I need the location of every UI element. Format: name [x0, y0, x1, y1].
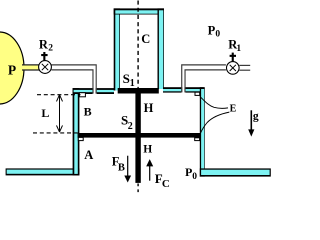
force arrow F_C (up) [149, 166, 151, 181]
R1 channel crossing shoulder [182, 87, 184, 92]
pressure gauge R2 (circle with X) [39, 61, 52, 74]
tube stub right of gauge R1 [239, 64, 250, 66]
support square under S2 right end [195, 138, 200, 141]
vessel left shoulder (cyan band with tube gap) [73, 88, 93, 94]
vessel left floor (cyan band) [6, 168, 80, 175]
gravity arrow g [250, 110, 252, 130]
svg-text:0: 0 [215, 30, 220, 40]
vessel left wall (cyan band) [73, 88, 80, 175]
svg-text:1: 1 [130, 78, 135, 89]
white bore of R2 down-channel [94, 66, 96, 94]
svg-text:P: P [8, 63, 16, 78]
pump bulb P [0, 32, 24, 104]
svg-text:1: 1 [236, 44, 241, 54]
vessel right shoulder (cyan band with tube gap) [163, 87, 181, 92]
support square on right shoulder [195, 92, 200, 95]
svg-text:A: A [84, 148, 93, 162]
svg-text:L: L [41, 106, 49, 120]
leader from E to lower support [200, 112, 229, 134]
svg-text:g: g [253, 111, 259, 123]
svg-text:H: H [143, 143, 152, 155]
chimney right wall (cyan band) [158, 8, 165, 89]
svg-text:C: C [162, 178, 170, 190]
dagger above gauge R1 [232, 53, 234, 62]
svg-text:E: E [230, 104, 237, 115]
dashed level line (bottom of L) [33, 132, 78, 134]
svg-text:B: B [118, 162, 125, 173]
svg-text:P: P [208, 24, 216, 38]
piston plate S1 (black bar in chimney) [118, 88, 159, 94]
support square on left shoulder [79, 93, 85, 97]
chimney left wall (cyan band) [114, 8, 120, 90]
pressure gauge R1 (circle with X) [227, 62, 240, 75]
chimney top (cyan band) [114, 8, 164, 14]
force arrow F_B (down) [127, 156, 129, 177]
vessel right floor (cyan band) [200, 168, 271, 176]
tube bulb to gauge R2 (yellow) [22, 65, 39, 69]
vessel right wall (cyan band) [200, 87, 205, 176]
leader from E to upper support [200, 96, 228, 108]
R2 channel crossing shoulder [94, 88, 96, 93]
white bore of R1 down-channel [182, 66, 184, 93]
dashed level line (top of L) [37, 94, 81, 96]
svg-text:0: 0 [192, 172, 197, 182]
tube gauge R2 to vessel [51, 65, 96, 94]
support square under S2 left end [78, 137, 83, 140]
svg-text:P: P [185, 165, 192, 179]
svg-text:2: 2 [48, 44, 53, 54]
svg-text:S: S [123, 71, 130, 86]
double-headed arrow L [59, 95, 61, 132]
svg-text:H: H [144, 101, 154, 115]
piston plate S2 (black bar) [78, 133, 201, 138]
dagger above gauge R2 [43, 52, 45, 61]
dashed center axis (top) [137, 1, 139, 89]
dashed center axis (below rod) [137, 184, 139, 194]
svg-text:B: B [84, 105, 92, 119]
svg-text:C: C [141, 32, 150, 46]
piston rod (vertical black bar) [135, 90, 140, 183]
tube R1 horizontal (vessel to gauge) [182, 65, 226, 92]
svg-text:2: 2 [128, 121, 133, 132]
